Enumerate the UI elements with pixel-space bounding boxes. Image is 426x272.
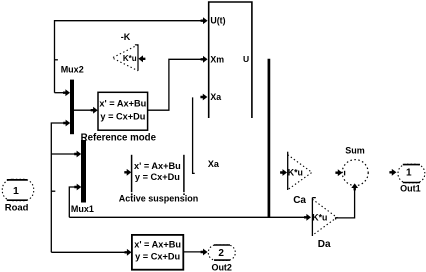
svg-text:2: 2 bbox=[218, 248, 224, 259]
wire state-space 3 output into Out2 bbox=[184, 251, 202, 253]
svg-text:Out2: Out2 bbox=[211, 262, 232, 272]
gain -K (flipped, points left) bbox=[112, 32, 145, 71]
wire Mux2 output into Reference mode bbox=[74, 109, 91, 111]
svg-text:1: 1 bbox=[406, 168, 412, 179]
output port 1: Out1 bbox=[398, 164, 425, 193]
svg-text:Road: Road bbox=[5, 203, 29, 214]
scope block: tall rectangle (no bottom border) bbox=[209, 2, 252, 118]
state-space U2: Active suspension (only side borders visible) bbox=[119, 155, 199, 204]
Mux2 block (bar) bbox=[70, 80, 74, 135]
svg-text:x' = Ax+Bu: x' = Ax+Bu bbox=[134, 161, 181, 171]
state-space U1: Reference mode bbox=[81, 92, 157, 143]
svg-text:y = Cx+Du: y = Cx+Du bbox=[135, 252, 180, 262]
wire road distribution vertical bbox=[51, 123, 64, 252]
svg-text:K*u: K*u bbox=[288, 168, 303, 178]
svg-text:Da: Da bbox=[318, 239, 331, 250]
svg-text:K*u: K*u bbox=[312, 212, 327, 222]
svg-text:Out1: Out1 bbox=[400, 184, 421, 194]
wire Active suspension output up to Xa port (vertical, foot at bottom) bbox=[193, 97, 195, 173]
wire arrow into U(t) port bbox=[201, 17, 208, 24]
wire arrow into Active suspension (floating arrowhead) bbox=[124, 169, 131, 176]
gain Ca bbox=[280, 152, 312, 206]
svg-text:U: U bbox=[243, 54, 249, 64]
sum block Sum (dotted circle) bbox=[335, 145, 368, 185]
svg-text:y = Cx+Du: y = Cx+Du bbox=[100, 111, 145, 121]
wire long U feedback line to Da bbox=[69, 216, 304, 218]
svg-text:x' = Ax+Bu: x' = Ax+Bu bbox=[99, 99, 146, 109]
wire Da output up to Sum bbox=[336, 190, 355, 220]
wire U thick vertical line bbox=[268, 59, 271, 218]
svg-text:Sum: Sum bbox=[345, 145, 365, 155]
svg-text:Mux1: Mux1 bbox=[71, 204, 94, 214]
wire branch into Mux1 input 1 bbox=[51, 153, 75, 155]
wire bottom branch into state-space 3 bbox=[51, 251, 125, 253]
svg-text:Mux2: Mux2 bbox=[61, 65, 84, 75]
svg-text:Xm: Xm bbox=[210, 54, 224, 64]
wire U(t): vertical feedback line down to Mux2 in1, corner to scope U(t) port bbox=[55, 21, 202, 93]
node tick at Road connection bbox=[51, 190, 55, 192]
wire arrow into Out1 (floating arrowhead) bbox=[389, 169, 396, 176]
Mux1 block (bar) bbox=[81, 140, 86, 203]
svg-text:Xa: Xa bbox=[210, 92, 221, 102]
svg-text:y = Cx+Du: y = Cx+Du bbox=[135, 172, 180, 182]
svg-text:1: 1 bbox=[13, 185, 19, 197]
svg-text:K*u: K*u bbox=[123, 54, 137, 63]
input port 1: Road bbox=[2, 179, 33, 213]
svg-text:x' = Ax+Bu: x' = Ax+Bu bbox=[134, 240, 181, 250]
svg-text:Active suspension: Active suspension bbox=[119, 194, 199, 204]
output port 2: Out2 bbox=[208, 245, 235, 272]
node junction tick on U wire bbox=[55, 59, 58, 61]
wire Reference mode output up to Xm port and -K input bbox=[148, 59, 202, 110]
wire stub into Mux2 input 1 bbox=[55, 92, 65, 94]
state-space U3 (bottom) bbox=[132, 235, 183, 270]
svg-text:-K: -K bbox=[121, 32, 131, 42]
wire arrow into Xa port bbox=[200, 94, 207, 101]
svg-text:Ca: Ca bbox=[293, 195, 306, 206]
svg-text:Xa: Xa bbox=[208, 159, 220, 169]
gain Da bbox=[312, 198, 337, 251]
wire Mux1 input 2 feedback corner bbox=[69, 187, 75, 217]
wire arrow into Mux2 input 2 bbox=[63, 120, 70, 127]
svg-text:U(t): U(t) bbox=[210, 16, 225, 26]
svg-text:Reference mode: Reference mode bbox=[81, 132, 157, 143]
